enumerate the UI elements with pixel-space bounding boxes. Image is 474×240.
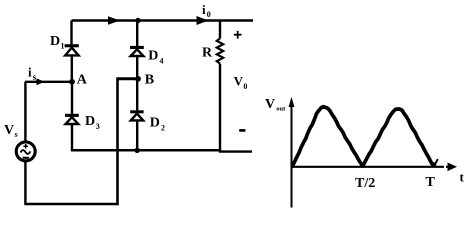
resistor R [217,38,223,63]
svg-text:V: V [234,74,244,89]
svg-text:T: T [426,175,436,190]
label Vout [265,97,286,113]
svg-text:2: 2 [161,124,165,133]
svg-text:D: D [85,114,95,129]
label + (V0 plus) [234,31,242,39]
wire B branch vertical [116,79,119,205]
svg-text:i: i [28,65,32,80]
source VS (ac source circle) [16,142,35,161]
waveform Vout curve [293,107,435,167]
svg-text:T/2: T/2 [355,176,375,191]
svg-text:D: D [148,49,158,64]
svg-text:D: D [150,116,160,131]
wire bottom rail [24,203,117,206]
svg-text:s: s [33,72,37,82]
wire source bottom vertical [24,161,26,204]
waveform end tick [435,160,438,165]
node B [135,76,141,82]
diode D2 [130,110,143,120]
wire R bottom [219,64,221,152]
label D3 [85,114,100,131]
svg-text:i: i [202,2,206,17]
svg-text:0: 0 [243,82,247,91]
wire B branch horizontal [116,77,138,80]
wire D2 to mid rail [136,121,138,151]
svg-text:V: V [4,123,14,138]
svg-text:D: D [50,34,60,49]
svg-text:3: 3 [96,122,100,131]
wire arrow i0 on top rail (right) [197,16,209,25]
y axis [289,97,295,208]
svg-text:s: s [15,130,18,139]
wire D3 to mid rail [71,124,73,150]
node junction dot mid rail [135,148,140,153]
svg-text:4: 4 [160,57,164,66]
diode D4 [130,46,144,56]
svg-text:R: R [202,46,213,61]
node A [69,79,75,85]
wire top rail [72,19,254,21]
svg-text:out: out [276,105,286,112]
svg-text:A: A [77,72,88,87]
label D1 [50,34,65,51]
label is [28,65,37,83]
label i0 [202,2,211,19]
svg-text:t: t [460,170,465,185]
wire mid rail right extension [219,150,252,152]
diode D1 [65,44,79,55]
label - (V0 minus) [239,129,245,132]
wire source top vertical [24,82,26,143]
wire D1 branch top [70,21,72,45]
wire mid rail [71,149,220,152]
wire D4 branch top [136,21,138,47]
wire node A to D3 [71,82,73,114]
svg-text:B: B [145,73,154,88]
label D2 [150,116,165,133]
wire D4 to node B [136,56,138,78]
diode D3 [65,114,79,124]
wire D1 to node A [71,56,73,82]
wire node B to D2 [136,79,138,111]
wire source to node A [25,81,72,83]
svg-text:0: 0 [207,10,211,19]
wire arrow on top rail (left) [108,16,120,25]
svg-text:V: V [265,97,275,112]
wire arrow is [37,78,45,85]
label D4 [148,49,163,66]
node junction dot top rail [135,18,140,23]
svg-text:1: 1 [61,42,65,51]
label V0 [234,74,248,91]
wire R branch top [219,21,221,39]
x axis [292,163,458,172]
label VS [4,123,18,139]
